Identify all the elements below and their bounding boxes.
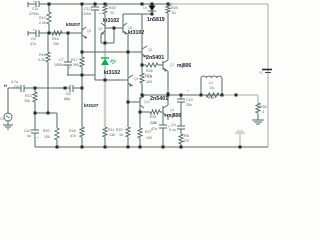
svg-text:4.7u: 4.7u (11, 80, 18, 84)
svg-text:390: 390 (73, 63, 79, 67)
svg-text:10k: 10k (53, 42, 59, 46)
svg-text:51: 51 (172, 11, 176, 15)
svg-text:470: 470 (183, 139, 189, 143)
svg-text:100: 100 (146, 136, 152, 140)
svg-text:2n5401: 2n5401 (150, 96, 168, 102)
svg-text:L1: L1 (209, 81, 213, 85)
svg-text:C4: C4 (171, 123, 176, 127)
svg-text:1n5819: 1n5819 (147, 17, 165, 23)
svg-text:2n5401: 2n5401 (146, 55, 164, 61)
svg-text:C9: C9 (31, 37, 36, 41)
svg-text:H: H (4, 83, 7, 88)
svg-text:Q5: Q5 (98, 27, 102, 31)
svg-text:2.2k: 2.2k (39, 21, 46, 25)
svg-text:C11: C11 (32, 7, 38, 11)
svg-text:47u: 47u (30, 42, 36, 46)
svg-text:kt9207: kt9207 (66, 22, 81, 27)
svg-text:2.2k: 2.2k (38, 58, 45, 62)
svg-text:R34: R34 (208, 96, 215, 100)
svg-text:30u: 30u (186, 103, 192, 107)
svg-text:D4: D4 (143, 6, 147, 10)
svg-text:47k: 47k (70, 134, 76, 138)
svg-text:0.1u: 0.1u (169, 128, 176, 132)
svg-text:Q4: Q4 (170, 108, 174, 112)
svg-text:C12: C12 (84, 7, 91, 11)
svg-text:13k: 13k (109, 133, 115, 137)
svg-text:47u: 47u (151, 127, 157, 131)
svg-text:22: 22 (110, 11, 114, 15)
svg-text:R16: R16 (52, 37, 59, 41)
svg-text:R24: R24 (145, 74, 152, 78)
svg-text:10k: 10k (24, 99, 30, 103)
svg-text:kt3102: kt3102 (128, 30, 144, 36)
svg-text:Q7: Q7 (170, 63, 174, 67)
svg-text:Q2: Q2 (87, 29, 91, 33)
svg-text:C7: C7 (59, 58, 64, 62)
svg-text:kt3102: kt3102 (104, 70, 120, 76)
svg-text:4700u: 4700u (29, 12, 39, 16)
svg-text:V1: V1 (259, 71, 263, 75)
svg-text:R8: R8 (184, 134, 189, 138)
svg-text:Q8: Q8 (148, 48, 152, 52)
svg-text:R20: R20 (43, 129, 50, 133)
svg-text:kt3102: kt3102 (103, 18, 119, 24)
svg-text:C8: C8 (14, 85, 19, 89)
svg-text:Q9: Q9 (134, 77, 138, 81)
svg-text:2u: 2u (210, 86, 214, 90)
svg-text:+: + (168, 125, 170, 129)
svg-text:R26: R26 (146, 69, 153, 73)
svg-text:+: + (33, 0, 35, 4)
svg-text:R22: R22 (116, 128, 123, 132)
svg-text:R30: R30 (109, 6, 116, 10)
svg-text:+: + (37, 136, 39, 140)
svg-text:R31: R31 (150, 115, 157, 119)
svg-text:4: 4 (262, 110, 264, 114)
svg-text:+: + (33, 28, 35, 32)
svg-text:R17: R17 (71, 58, 78, 62)
svg-text:R10: R10 (39, 16, 46, 20)
svg-text:1k: 1k (119, 133, 123, 137)
svg-text:100u: 100u (83, 12, 91, 16)
svg-text:1000u: 1000u (54, 63, 64, 67)
svg-text:R13: R13 (25, 94, 32, 98)
svg-text:C15: C15 (150, 121, 157, 125)
svg-text:kt3107: kt3107 (84, 103, 99, 108)
svg-text:R14: R14 (39, 53, 46, 57)
svg-text:+: + (99, 12, 101, 16)
svg-text:mj806: mj806 (167, 113, 181, 119)
svg-text:R11: R11 (108, 128, 114, 132)
svg-text:4u: 4u (27, 134, 31, 138)
svg-text:68p: 68p (64, 97, 70, 101)
svg-text:C13: C13 (186, 98, 193, 102)
svg-text:R29: R29 (171, 6, 178, 10)
svg-text:R18: R18 (69, 129, 76, 133)
svg-text:C6: C6 (66, 92, 71, 96)
svg-text:R35: R35 (260, 105, 267, 109)
svg-text:V2: V2 (0, 117, 4, 121)
svg-text:100: 100 (44, 135, 50, 139)
svg-text:mj806: mj806 (177, 63, 191, 69)
svg-text:100: 100 (146, 80, 152, 84)
svg-text:C10: C10 (24, 129, 31, 133)
svg-text:+: + (69, 66, 71, 70)
svg-text:+: + (187, 89, 189, 93)
